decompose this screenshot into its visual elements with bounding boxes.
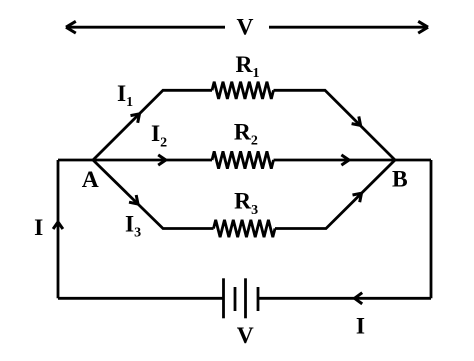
wire branch1 to node B bbox=[274, 90, 396, 160]
arrowhead branch1 into B bbox=[352, 116, 361, 125]
wire branch2 resistor to node B bbox=[274, 159, 396, 162]
resistor R3 bbox=[214, 220, 276, 237]
wire branch3 to node B bbox=[275, 160, 395, 229]
svg-text:A: A bbox=[82, 167, 99, 193]
wire node B to right vertical bbox=[395, 159, 431, 162]
wire branch2 A to resistor bbox=[93, 159, 212, 162]
arrowhead current I bottom wire bbox=[355, 293, 363, 304]
wire branch1 diagonal A up bbox=[93, 90, 212, 160]
arrowhead current I3 bbox=[129, 195, 138, 204]
wire left vertical bbox=[57, 160, 60, 298]
wire branch3 diagonal A down bbox=[93, 160, 214, 229]
svg-text:I: I bbox=[34, 215, 43, 241]
arrowhead branch2 into B bbox=[341, 155, 349, 165]
wire bottom right from battery bbox=[258, 297, 431, 300]
wire right vertical bbox=[430, 160, 433, 298]
resistor R1 bbox=[212, 82, 274, 99]
arrowhead current I2 bbox=[158, 155, 166, 165]
wire left stub to node A bbox=[58, 159, 93, 162]
wire bottom left to battery bbox=[58, 297, 224, 300]
battery V short plate 1 bbox=[234, 287, 237, 311]
battery V long plate 2 bbox=[244, 278, 247, 318]
resistor R2 bbox=[212, 151, 274, 168]
arrowhead current I left wire bbox=[53, 222, 63, 229]
arrowhead top-right bbox=[418, 21, 428, 33]
wire top voltage span line left bbox=[66, 26, 225, 29]
arrowhead top-left bbox=[66, 21, 76, 33]
wire top voltage span line right bbox=[269, 26, 428, 29]
battery V long plate 1 bbox=[222, 278, 225, 318]
svg-text:I: I bbox=[356, 314, 365, 340]
battery V short plate 2 bbox=[257, 287, 260, 311]
arrowhead current I1 bbox=[131, 114, 140, 123]
svg-text:B: B bbox=[392, 167, 408, 193]
svg-text:V: V bbox=[237, 323, 254, 349]
arrowhead branch3 into B bbox=[353, 193, 362, 202]
svg-text:V: V bbox=[237, 15, 254, 41]
